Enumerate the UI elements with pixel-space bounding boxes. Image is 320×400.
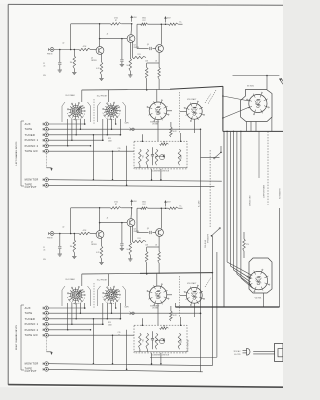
svg-text:6800: 6800 bbox=[142, 18, 146, 20]
svg-text:60 CPS: 60 CPS bbox=[234, 354, 241, 356]
svg-text:R7: R7 bbox=[115, 204, 117, 206]
svg-text:S1-1 REAR: S1-1 REAR bbox=[65, 278, 75, 281]
svg-text:(TONE): (TONE) bbox=[152, 124, 159, 126]
svg-text:R25: R25 bbox=[108, 322, 111, 324]
svg-text:Q3: Q3 bbox=[134, 229, 136, 231]
svg-text:V1B 12AX7: V1B 12AX7 bbox=[187, 282, 196, 285]
svg-text:OUTPUT TRANS: OUTPUT TRANS bbox=[263, 184, 266, 198]
svg-text:TO HEATERS: TO HEATERS bbox=[278, 187, 281, 199]
svg-text:.05: .05 bbox=[43, 250, 45, 252]
svg-text:OUTPUT: OUTPUT bbox=[25, 185, 37, 189]
svg-text:TUNER: TUNER bbox=[25, 317, 35, 321]
svg-text:TAPE HD: TAPE HD bbox=[25, 333, 38, 337]
svg-text:PRE IN: PRE IN bbox=[47, 238, 53, 240]
svg-text:R7: R7 bbox=[115, 20, 117, 22]
svg-text:.02: .02 bbox=[62, 227, 64, 229]
svg-text:AUX: AUX bbox=[25, 122, 31, 126]
svg-text:V3 7591: V3 7591 bbox=[247, 86, 254, 88]
svg-text:RIGHT CHANNEL INPUTS: RIGHT CHANNEL INPUTS bbox=[15, 324, 18, 350]
svg-text:R13: R13 bbox=[138, 238, 141, 240]
svg-text:.02: .02 bbox=[118, 150, 120, 152]
svg-text:4700: 4700 bbox=[114, 18, 118, 20]
svg-text:R25: R25 bbox=[108, 138, 111, 140]
svg-text:AUX: AUX bbox=[25, 306, 31, 310]
svg-text:R13: R13 bbox=[138, 54, 141, 56]
svg-text:Q3: Q3 bbox=[134, 45, 136, 47]
svg-text:S1-2 FRONT: S1-2 FRONT bbox=[97, 96, 108, 98]
svg-text:C1: C1 bbox=[43, 63, 45, 65]
svg-text:S1-1 REAR: S1-1 REAR bbox=[65, 94, 75, 97]
svg-text:MONITOR: MONITOR bbox=[25, 178, 39, 182]
svg-text:LOUDNESS CONTOUR: LOUDNESS CONTOUR bbox=[151, 355, 170, 357]
svg-text:LOUDNESS CONTOUR: LOUDNESS CONTOUR bbox=[151, 171, 170, 173]
svg-text:C15: C15 bbox=[118, 148, 121, 150]
svg-text:2N2926: 2N2926 bbox=[91, 60, 97, 62]
svg-text:Q1: Q1 bbox=[91, 242, 93, 244]
svg-text:C1: C1 bbox=[43, 247, 45, 249]
svg-text:115V AC: 115V AC bbox=[234, 350, 242, 353]
svg-text:VOL: VOL bbox=[143, 155, 145, 158]
svg-text:Q5: Q5 bbox=[147, 228, 149, 230]
svg-text:GRN 16 OHM: GRN 16 OHM bbox=[250, 195, 252, 206]
svg-text:PHONO 1: PHONO 1 bbox=[25, 322, 39, 326]
svg-text:TAPE: TAPE bbox=[25, 127, 33, 131]
svg-text:TAPE HD: TAPE HD bbox=[25, 149, 38, 153]
svg-text:PRE IN: PRE IN bbox=[47, 54, 53, 56]
svg-text:R17: R17 bbox=[143, 204, 146, 206]
svg-text:Q1: Q1 bbox=[91, 58, 93, 60]
svg-text:S1-2 FRONT: S1-2 FRONT bbox=[97, 280, 108, 282]
svg-text:6800: 6800 bbox=[142, 202, 146, 204]
svg-text:C15: C15 bbox=[118, 332, 121, 334]
svg-text:J2: J2 bbox=[107, 34, 109, 36]
svg-text:.02: .02 bbox=[118, 334, 120, 336]
svg-text:4700: 4700 bbox=[114, 202, 118, 204]
svg-text:.02: .02 bbox=[62, 43, 64, 45]
svg-text:.05: .05 bbox=[43, 66, 45, 68]
svg-text:OUTPUT: OUTPUT bbox=[25, 369, 37, 373]
svg-text:PHONO 2: PHONO 2 bbox=[25, 328, 39, 332]
svg-text:(TONE): (TONE) bbox=[152, 308, 159, 310]
svg-text:R17: R17 bbox=[143, 20, 146, 22]
svg-text:Q5: Q5 bbox=[147, 44, 149, 46]
svg-text:MONITOR: MONITOR bbox=[25, 362, 39, 366]
svg-text:SPKR FUSE 1A: SPKR FUSE 1A bbox=[187, 339, 190, 352]
svg-text:TUNER: TUNER bbox=[25, 133, 35, 137]
svg-text:B+: B+ bbox=[180, 205, 182, 207]
svg-text:2N2926: 2N2926 bbox=[91, 244, 97, 246]
svg-text:PHONO 2: PHONO 2 bbox=[25, 144, 39, 148]
svg-text:SPEAKERS: SPEAKERS bbox=[207, 233, 210, 243]
svg-text:PHONO 1: PHONO 1 bbox=[25, 138, 39, 142]
svg-text:V1B 12AX7: V1B 12AX7 bbox=[187, 98, 196, 101]
svg-text:TAPE: TAPE bbox=[25, 311, 33, 315]
svg-text:VOL: VOL bbox=[143, 339, 145, 342]
svg-text:B+: B+ bbox=[180, 21, 182, 23]
svg-text:V4 7591: V4 7591 bbox=[255, 298, 262, 300]
svg-text:270: 270 bbox=[246, 244, 249, 246]
svg-text:LEFT CHANNEL INPUTS: LEFT CHANNEL INPUTS bbox=[15, 141, 18, 165]
svg-text:J2: J2 bbox=[107, 218, 109, 220]
